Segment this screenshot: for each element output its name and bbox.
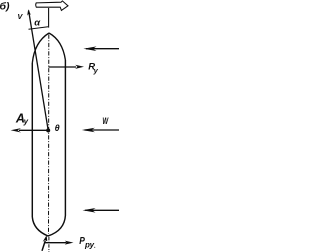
svg-text:θ: θ [55, 123, 60, 133]
svg-text:V: V [17, 12, 23, 21]
body right edge [64, 60, 66, 216]
wind arrow bottom [85, 209, 119, 211]
svg-text:W: W [102, 116, 109, 126]
svg-text:y: y [23, 117, 29, 126]
body centerline (dash-dot axis) [48, 35, 50, 235]
force Ppy arrow [45, 242, 67, 244]
hollow outline arrow (disturbance direction) [36, 1, 68, 11]
CG dot [46, 128, 50, 132]
svg-text:ру: ру [84, 240, 95, 249]
thrust vector line (deflected engine) [42, 241, 45, 251]
body bottom arc [32, 216, 65, 237]
force Ry arrow [49, 66, 77, 68]
nose right curve [49, 33, 65, 60]
velocity line V (slanted through nose to CG) [29, 11, 49, 131]
small period after label [94, 247, 95, 248]
force Ay arrow [19, 129, 48, 131]
nose left curve [32, 33, 49, 63]
svg-text:y: y [93, 66, 99, 75]
angle alpha chord tick [29, 27, 49, 30]
body left edge [31, 63, 33, 217]
centerline extension below body [48, 237, 50, 252]
thrust arrowhead [43, 235, 48, 242]
wind arrow middle W [85, 129, 120, 131]
svg-text:α: α [34, 17, 41, 28]
vertical reference line above nose [48, 8, 50, 28]
V arrowhead [27, 9, 31, 15]
svg-text:б): б) [0, 0, 10, 12]
wind arrow top W [86, 48, 119, 50]
